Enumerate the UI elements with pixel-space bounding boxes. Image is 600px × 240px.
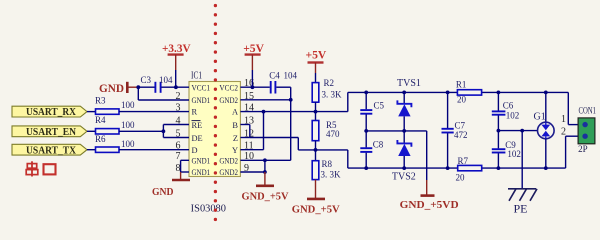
resistor R3 (87, 95, 135, 114)
wire B net to R5/R8 node (250, 138, 348, 169)
node +3.3V / VCC1 (174, 85, 178, 89)
diode TVS1 (397, 78, 421, 131)
svg-text:GND1: GND1 (192, 96, 211, 105)
resistor R6 (87, 134, 135, 152)
svg-text:DE: DE (192, 134, 203, 143)
wire GND2 vertical (240, 100, 290, 161)
svg-text:102: 102 (507, 149, 521, 159)
svg-text:GND2: GND2 (219, 168, 238, 177)
pin number 1 (561, 114, 566, 125)
wire B-Z bracket (240, 125, 249, 138)
svg-text:C4: C4 (269, 71, 280, 81)
svg-text:VCC1: VCC1 (192, 83, 211, 92)
node PE (520, 129, 524, 133)
node A/Y (262, 110, 266, 114)
pin names left (192, 83, 211, 177)
svg-text:R3: R3 (95, 95, 106, 105)
resistor R8 (312, 150, 341, 180)
wire GND2 pin9 (240, 171, 265, 173)
svg-text:B: B (232, 121, 238, 130)
svg-text:TVS1: TVS1 (397, 78, 421, 89)
node C4/GND2 (289, 98, 293, 102)
pin names right (219, 83, 238, 177)
svg-text:VCC2: VCC2 (219, 83, 238, 92)
node TVS1 bottom (402, 129, 406, 133)
svg-text:20: 20 (456, 172, 466, 182)
wire A-Y bracket (240, 112, 263, 150)
capacitor C5 (360, 92, 384, 130)
svg-text:100: 100 (121, 120, 135, 130)
svg-text:1: 1 (561, 114, 566, 125)
svg-text:A: A (232, 108, 238, 117)
wire VCC2 (240, 86, 269, 88)
node B / R5 / R8 (314, 148, 318, 152)
svg-text:GND: GND (99, 81, 124, 95)
svg-text:472: 472 (454, 130, 468, 140)
resistor R4 (87, 115, 135, 134)
svg-text:RE: RE (192, 121, 203, 130)
node C7 top (446, 91, 450, 95)
wire GND2 pin15 (240, 99, 290, 101)
svg-text:+3.3V: +3.3V (162, 41, 191, 55)
label 串口 (26, 161, 55, 176)
svg-text:CON1: CON1 (579, 106, 597, 116)
node G1 top (544, 91, 548, 95)
wire PE net (498, 131, 537, 189)
pin numbers left (176, 91, 181, 174)
svg-text:C8: C8 (373, 140, 384, 150)
svg-text:R4: R4 (95, 115, 106, 125)
svg-text:C3: C3 (141, 75, 152, 85)
svg-text:470: 470 (326, 129, 340, 139)
wire lower bus B (348, 136, 578, 168)
svg-text:7: 7 (176, 151, 181, 162)
wire R3 to pin R (119, 111, 189, 113)
arrester G1 (534, 92, 555, 168)
node pin9 (263, 170, 267, 174)
node C5 top (364, 91, 368, 95)
capacitor C3 (138, 75, 189, 93)
node A / R2 / R5 (314, 110, 318, 114)
svg-text:Y: Y (232, 146, 238, 155)
capacitor C4 (269, 71, 297, 100)
resistor R2 (312, 78, 342, 112)
svg-text:GND: GND (152, 186, 174, 198)
capacitor C6 (492, 92, 519, 130)
wire R4 to RE/DE bracket (119, 125, 189, 138)
node C7 bottom (446, 166, 450, 170)
power +5V right (306, 48, 327, 83)
resistor R5 (312, 112, 340, 150)
svg-text:100: 100 (121, 100, 135, 110)
ground GND_+5VD (400, 180, 459, 211)
node C3 left / GND1 (136, 85, 140, 89)
svg-text:+5V: +5V (243, 41, 264, 55)
svg-text:2: 2 (561, 127, 566, 138)
svg-text:20: 20 (457, 95, 467, 105)
capacitor C9 (492, 131, 521, 169)
node C5 bottom (364, 129, 368, 133)
ground GND_+5V under pins 9,10 (242, 160, 289, 202)
ground GND under pins 7,8 (152, 160, 190, 198)
svg-text:TVS2: TVS2 (392, 171, 416, 182)
junction EN bracket (162, 129, 166, 133)
svg-text:GND_+5V: GND_+5V (292, 204, 340, 216)
svg-text:USART_TX: USART_TX (26, 145, 76, 156)
wire middle bus (366, 131, 427, 180)
ground port GND left (99, 81, 138, 95)
node VCC2/+5V (251, 85, 255, 89)
svg-text:G1: G1 (534, 112, 546, 123)
port USART_EN (12, 126, 87, 138)
svg-text:3. 3K: 3. 3K (321, 170, 342, 180)
svg-text:GND2: GND2 (219, 156, 238, 165)
IC IC1 IS03080 (189, 71, 240, 215)
wire GND to GND1 pin2 (138, 87, 189, 100)
svg-text:GND_+5V: GND_+5V (242, 191, 289, 203)
port USART_TX (12, 144, 87, 156)
wire R6 to pin D (119, 149, 189, 151)
svg-text:IS03080: IS03080 (191, 204, 226, 215)
svg-text:GND1: GND1 (192, 156, 211, 165)
svg-text:GND1: GND1 (192, 168, 211, 177)
svg-text:102: 102 (506, 111, 520, 121)
power +5V left (243, 41, 264, 87)
capacitor C8 (360, 131, 384, 168)
pin number 2 (561, 127, 566, 138)
node C9 bottom (497, 166, 501, 170)
resistor R7 (456, 156, 482, 182)
svg-text:R: R (192, 108, 198, 117)
svg-text:R2: R2 (324, 78, 335, 88)
node TVS1 top (402, 91, 406, 95)
ground GND_+5V under R8 (292, 180, 340, 216)
svg-text:D: D (192, 146, 198, 155)
svg-text:C6: C6 (503, 101, 514, 111)
svg-text:PE: PE (514, 202, 528, 216)
diode TVS2 (392, 131, 416, 182)
svg-text:8: 8 (176, 163, 181, 174)
wire A net pin14 (240, 92, 347, 111)
earth PE symbol (508, 189, 537, 216)
power +3.3V (162, 41, 191, 87)
pin numbers right (244, 78, 254, 174)
svg-text:Z: Z (233, 134, 238, 143)
node C6 top (497, 91, 501, 95)
connector CON1 (578, 106, 596, 155)
svg-text:104: 104 (159, 75, 173, 85)
svg-text:C5: C5 (374, 101, 385, 111)
svg-text:R1: R1 (456, 79, 467, 89)
svg-text:104: 104 (284, 71, 298, 81)
port USART_RX (12, 106, 87, 118)
svg-text:USART_EN: USART_EN (26, 127, 76, 138)
svg-text:R7: R7 (458, 156, 469, 166)
svg-text:R8: R8 (322, 159, 333, 169)
svg-text:R6: R6 (95, 134, 106, 144)
node TVS2 bottom (402, 166, 406, 170)
svg-text:100: 100 (121, 139, 135, 149)
capacitor C7 (442, 92, 468, 168)
svg-text:IC1: IC1 (191, 71, 202, 82)
svg-text:GND_+5VD: GND_+5VD (400, 199, 459, 211)
svg-text:GND2: GND2 (219, 96, 238, 105)
node pin10 (263, 158, 267, 162)
svg-text:2P: 2P (578, 144, 588, 154)
svg-text:+5V: +5V (306, 48, 327, 62)
svg-text:USART_RX: USART_RX (26, 107, 76, 118)
node C6/C9 PE junction (497, 129, 501, 133)
node G1 bottom (544, 166, 548, 170)
node C8 bottom (364, 166, 368, 170)
resistor R1 (456, 79, 482, 104)
isolation barrier dotted line (214, 6, 217, 228)
svg-text:3. 3K: 3. 3K (322, 90, 343, 100)
wire upper bus A (348, 92, 578, 124)
